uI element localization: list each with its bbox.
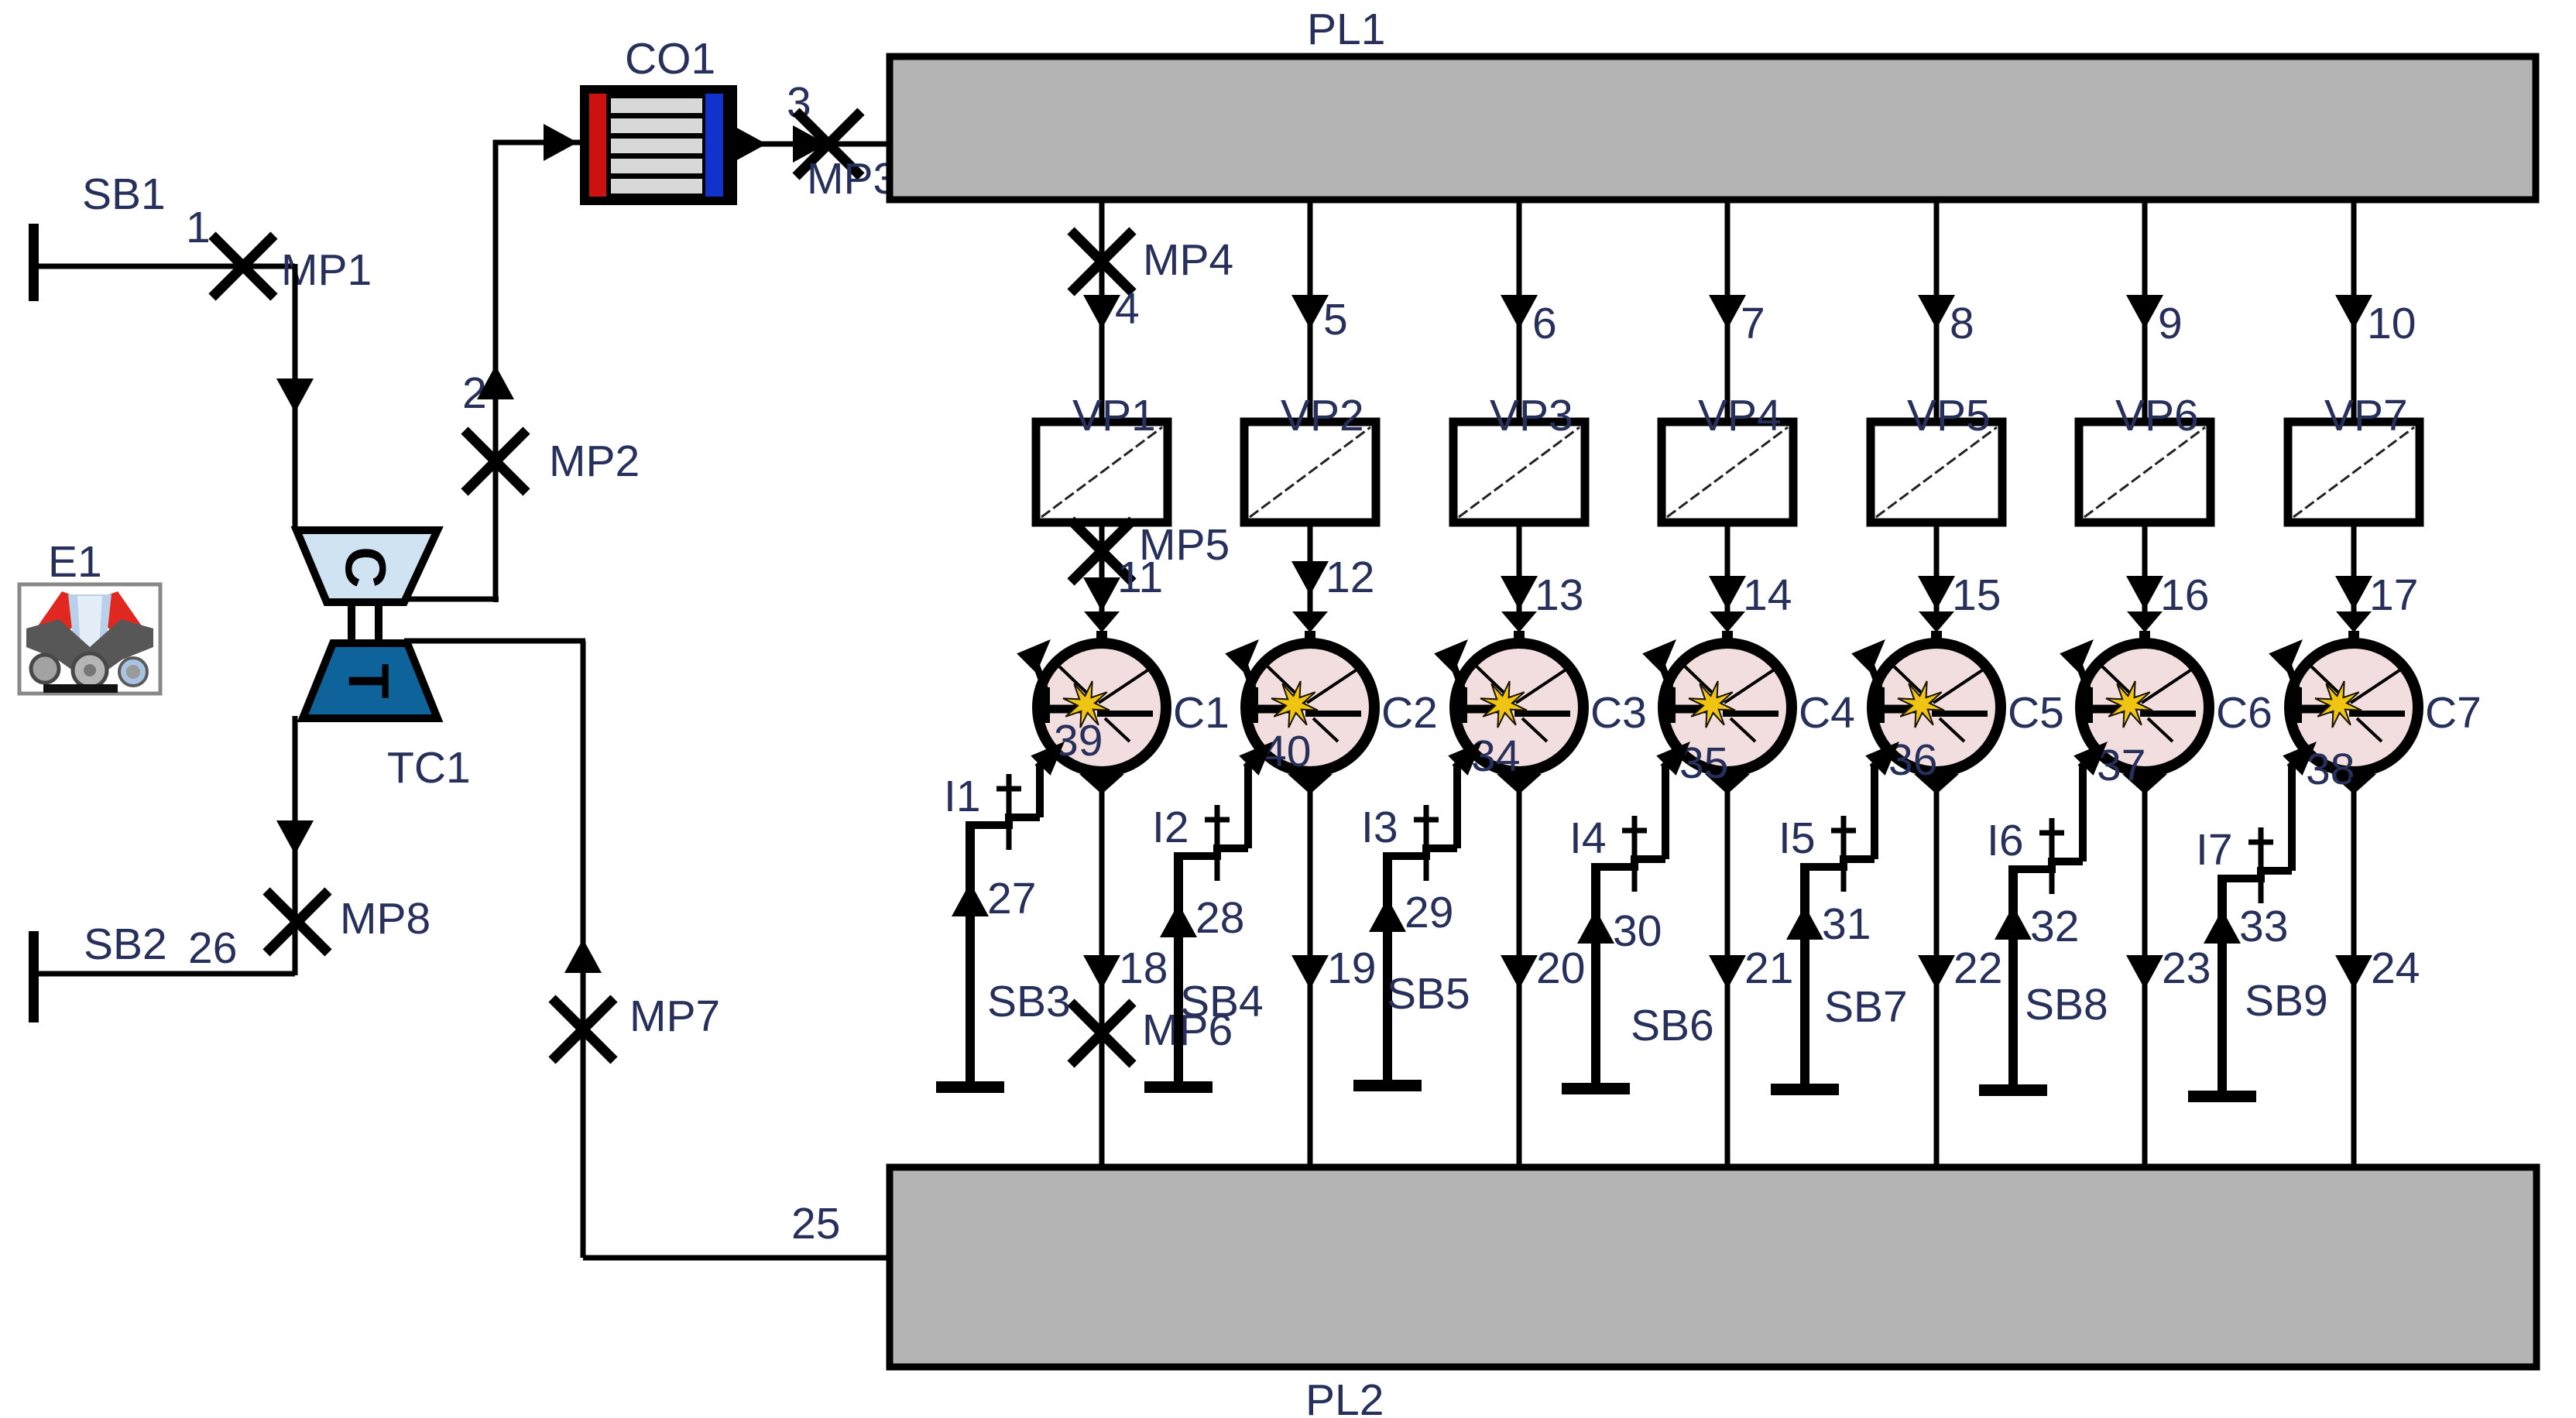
flow arrow up to turbine bbox=[564, 939, 602, 973]
svg-text:CO1: CO1 bbox=[625, 34, 715, 84]
flow arrow node 5 bbox=[1291, 295, 1348, 344]
flow arrow node 13 bbox=[1501, 570, 1583, 620]
label E1 bbox=[48, 537, 102, 587]
valve MP8 bbox=[266, 891, 430, 953]
wire VP5 to cylinder C5 bbox=[1934, 522, 1940, 613]
cylinder C3 bbox=[1434, 611, 1583, 794]
svg-text:SB8: SB8 bbox=[2025, 980, 2108, 1029]
svg-text:I4: I4 bbox=[1569, 813, 1607, 863]
boundary SB9 bbox=[2188, 1091, 2256, 1102]
valve VP2 bbox=[1244, 391, 1376, 522]
svg-text:27: 27 bbox=[987, 874, 1036, 923]
wire injector I1 to cylinder bbox=[1031, 742, 1065, 817]
label I2 bbox=[1152, 803, 1189, 852]
svg-text:C3: C3 bbox=[1590, 688, 1647, 738]
flow arrow node 15 bbox=[1918, 570, 2001, 620]
svg-text:MP3: MP3 bbox=[807, 154, 897, 204]
label I4 bbox=[1569, 813, 1607, 863]
cooler CO1 bbox=[580, 85, 737, 205]
wire PL1 riser pipe 7 bbox=[1725, 200, 1730, 424]
svg-text:VP6: VP6 bbox=[2115, 391, 2199, 440]
label SB7 bbox=[1824, 982, 1908, 1032]
svg-text:13: 13 bbox=[1535, 570, 1583, 620]
svg-text:32: 32 bbox=[2030, 902, 2079, 951]
flow arrow node 10 bbox=[2335, 295, 2416, 348]
label CO1 bbox=[625, 34, 715, 84]
boundary SB7 bbox=[1771, 1084, 1839, 1095]
svg-text:MP8: MP8 bbox=[340, 894, 430, 944]
svg-text:SB1: SB1 bbox=[82, 170, 166, 219]
svg-text:24: 24 bbox=[2371, 944, 2420, 993]
svg-text:29: 29 bbox=[1405, 888, 1453, 937]
svg-text:I3: I3 bbox=[1361, 803, 1398, 852]
wire VP2 to cylinder C2 bbox=[1308, 522, 1313, 613]
svg-text:23: 23 bbox=[2162, 944, 2211, 993]
injector I1 bbox=[970, 774, 1040, 850]
turbocharger compressor TC1-C bbox=[297, 530, 437, 602]
wire MP1 down to compressor bbox=[293, 264, 298, 530]
wire turbine outlet down bbox=[293, 716, 298, 975]
wire injector I3 supply bbox=[1383, 852, 1392, 1080]
cylinder C1 port number 39 bbox=[1054, 716, 1103, 766]
node 1 label bbox=[186, 203, 211, 252]
valve VP6 bbox=[2079, 391, 2211, 522]
wire injector I5 supply bbox=[1800, 863, 1809, 1084]
wire to CO1 inlet bbox=[493, 140, 580, 146]
wire VP7 to cylinder C7 bbox=[2351, 522, 2357, 613]
svg-text:I6: I6 bbox=[1987, 816, 2024, 865]
svg-text:18: 18 bbox=[1119, 944, 1168, 993]
injector I4 bbox=[1596, 816, 1665, 892]
wire compressor outlet to riser bbox=[404, 597, 499, 602]
engine E1 icon bbox=[19, 584, 160, 694]
svg-text:26: 26 bbox=[188, 923, 237, 973]
svg-text:36: 36 bbox=[1888, 735, 1937, 785]
svg-text:VP1: VP1 bbox=[1072, 391, 1156, 440]
svg-text:C1: C1 bbox=[1173, 688, 1230, 738]
valve VP4 bbox=[1662, 391, 1793, 522]
svg-text:E1: E1 bbox=[48, 537, 102, 587]
wire PL1 riser pipe 8 bbox=[1934, 200, 1940, 424]
wire CO1 to PL1 bbox=[737, 142, 892, 147]
svg-text:SB7: SB7 bbox=[1824, 982, 1908, 1032]
flow arrow node 20 bbox=[1501, 944, 1585, 993]
injector I5 bbox=[1805, 816, 1875, 892]
flow arrow node 6 bbox=[1501, 295, 1557, 348]
flow arrow up node 2 bbox=[477, 365, 514, 399]
flow arrow node 14 bbox=[1709, 570, 1792, 620]
svg-text:SB4: SB4 bbox=[1180, 977, 1264, 1026]
valve VP3 bbox=[1453, 391, 1585, 522]
injector I6 bbox=[2013, 818, 2083, 894]
svg-text:31: 31 bbox=[1822, 899, 1871, 949]
svg-text:4: 4 bbox=[1115, 284, 1140, 334]
label SB8 bbox=[2025, 980, 2108, 1029]
svg-text:SB2: SB2 bbox=[84, 920, 167, 969]
valve VP1 bbox=[1036, 391, 1168, 522]
boundary SB3 bbox=[936, 1081, 1004, 1093]
wire injector I5 to cylinder bbox=[1865, 742, 1899, 859]
wire PL1 riser pipe 9 bbox=[2142, 200, 2148, 424]
svg-text:28: 28 bbox=[1195, 893, 1244, 943]
flow arrow node 11 bbox=[1083, 553, 1163, 611]
label PL2 bbox=[1305, 1375, 1384, 1418]
flow arrow node 19 bbox=[1291, 944, 1376, 993]
svg-text:VP5: VP5 bbox=[1907, 391, 1991, 440]
label I7 bbox=[2196, 825, 2233, 875]
wire injector I7 supply bbox=[2218, 875, 2227, 1091]
svg-text:7: 7 bbox=[1741, 299, 1765, 348]
svg-text:8: 8 bbox=[1950, 299, 1974, 348]
valve VP7 bbox=[2288, 391, 2420, 522]
label I5 bbox=[1779, 813, 1816, 863]
svg-text:20: 20 bbox=[1536, 944, 1585, 993]
cylinder C5 port number 36 bbox=[1888, 735, 1937, 785]
svg-text:SB3: SB3 bbox=[987, 977, 1071, 1026]
wire injector I1 supply bbox=[966, 821, 975, 1081]
svg-text:C4: C4 bbox=[1799, 688, 1855, 738]
label SB3 bbox=[987, 977, 1071, 1026]
svg-text:11: 11 bbox=[1117, 553, 1163, 602]
cylinder C6 bbox=[2060, 611, 2209, 794]
wire VP1 to cylinder C1 bbox=[1099, 522, 1105, 613]
turbocharger turbine TC1-T bbox=[303, 643, 437, 718]
svg-text:I5: I5 bbox=[1779, 813, 1816, 863]
label SB2 bbox=[84, 920, 167, 969]
cylinder C1 bbox=[1017, 611, 1166, 794]
valve MP4 bbox=[1071, 231, 1233, 293]
svg-text:21: 21 bbox=[1744, 944, 1793, 993]
flow arrow node 16 bbox=[2126, 570, 2209, 620]
svg-text:PL2: PL2 bbox=[1305, 1375, 1384, 1418]
wire PL1 riser pipe 6 bbox=[1517, 200, 1522, 424]
svg-text:SB6: SB6 bbox=[1631, 1001, 1714, 1050]
valve MP6 bbox=[1071, 1002, 1233, 1064]
svg-text:T: T bbox=[337, 663, 401, 698]
flow arrow node 32 bbox=[1995, 902, 2079, 951]
wire cylinder C3 to PL2 bbox=[1517, 777, 1522, 1170]
svg-text:I2: I2 bbox=[1152, 803, 1189, 852]
node 2 label bbox=[462, 368, 487, 418]
label I1 bbox=[944, 772, 981, 821]
wire PL1 riser pipe 10 bbox=[2351, 200, 2357, 424]
wire turbine inlet from PL2 bbox=[404, 641, 892, 1258]
flow arrow into MP3 bbox=[793, 125, 827, 163]
wire cylinder C2 to PL2 bbox=[1308, 777, 1313, 1170]
injector I3 bbox=[1387, 805, 1457, 881]
svg-text:34: 34 bbox=[1471, 731, 1520, 781]
svg-text:C5: C5 bbox=[2008, 688, 2064, 738]
label SB9 bbox=[2245, 976, 2328, 1026]
svg-text:VP4: VP4 bbox=[1698, 391, 1782, 440]
wire SB1 to MP1 corner bbox=[245, 264, 295, 269]
svg-text:I1: I1 bbox=[944, 772, 981, 821]
plenum PL1 bbox=[890, 57, 2536, 200]
svg-text:SB9: SB9 bbox=[2245, 976, 2328, 1026]
label C4 bbox=[1799, 688, 1855, 738]
label C7 bbox=[2425, 688, 2482, 738]
svg-text:39: 39 bbox=[1054, 716, 1103, 766]
svg-text:16: 16 bbox=[2160, 570, 2209, 620]
flow arrow node 7 bbox=[1709, 295, 1765, 348]
svg-text:MP7: MP7 bbox=[629, 992, 720, 1041]
svg-text:30: 30 bbox=[1613, 906, 1662, 956]
label SB6 bbox=[1631, 1001, 1714, 1050]
label C5 bbox=[2008, 688, 2064, 738]
wire injector I2 to cylinder bbox=[1239, 742, 1273, 848]
svg-text:5: 5 bbox=[1323, 295, 1348, 344]
flow arrow node 18 bbox=[1083, 944, 1168, 993]
wire VP4 to cylinder C4 bbox=[1725, 522, 1730, 613]
svg-text:25: 25 bbox=[791, 1199, 840, 1248]
svg-text:MP2: MP2 bbox=[549, 437, 640, 486]
flow arrow down to MP8 bbox=[276, 820, 314, 855]
svg-text:C2: C2 bbox=[1381, 688, 1438, 738]
wire VP6 to cylinder C6 bbox=[2142, 522, 2148, 613]
label C6 bbox=[2216, 688, 2272, 738]
svg-text:15: 15 bbox=[1952, 570, 2001, 620]
svg-text:6: 6 bbox=[1532, 299, 1557, 348]
svg-text:17: 17 bbox=[2369, 570, 2418, 620]
svg-text:9: 9 bbox=[2158, 299, 2183, 348]
label SB4 bbox=[1180, 977, 1264, 1026]
wire PL1 riser pipe 5 bbox=[1308, 200, 1313, 424]
wire injector I4 supply bbox=[1591, 863, 1600, 1083]
wire cylinder C1 to PL2 bbox=[1099, 777, 1105, 1170]
flow arrow node 23 bbox=[2126, 944, 2211, 993]
boundary SB5 bbox=[1353, 1080, 1422, 1091]
wire cylinder C6 to PL2 bbox=[2142, 777, 2148, 1170]
flow arrow node 8 bbox=[1918, 295, 1974, 348]
wire PL1 riser pipe 4 bbox=[1099, 200, 1105, 424]
flow arrow node 4 bbox=[1083, 284, 1140, 334]
wire riser 2 up to CO1 level bbox=[493, 140, 499, 602]
injector I7 bbox=[2222, 827, 2292, 903]
label I6 bbox=[1987, 816, 2024, 865]
cylinder C4 bbox=[1642, 611, 1792, 794]
label C1 bbox=[1173, 688, 1230, 738]
turbocharger shaft bbox=[352, 602, 379, 643]
svg-text:14: 14 bbox=[1743, 570, 1792, 620]
wire cylinder C7 to PL2 bbox=[2351, 777, 2357, 1170]
flow arrow node 30 bbox=[1577, 906, 1662, 956]
wire injector I6 to cylinder bbox=[2073, 742, 2108, 861]
boundary SB1 bbox=[29, 224, 245, 301]
injector I2 bbox=[1178, 805, 1248, 881]
svg-text:VP2: VP2 bbox=[1281, 391, 1364, 440]
valve VP5 bbox=[1871, 391, 2002, 522]
wire injector I3 to cylinder bbox=[1448, 742, 1482, 848]
svg-text:SB5: SB5 bbox=[1387, 969, 1470, 1019]
cylinder C5 bbox=[1851, 611, 2001, 794]
cylinder C2 port number 40 bbox=[1262, 727, 1311, 776]
boundary SB6 bbox=[1562, 1083, 1630, 1094]
label C2 bbox=[1381, 688, 1438, 738]
label C3 bbox=[1590, 688, 1647, 738]
label I3 bbox=[1361, 803, 1398, 852]
cylinder C6 port number 37 bbox=[2097, 741, 2146, 790]
cylinder C3 port number 34 bbox=[1471, 731, 1520, 781]
cylinder C2 bbox=[1225, 611, 1374, 794]
svg-text:33: 33 bbox=[2239, 902, 2288, 951]
svg-text:PL1: PL1 bbox=[1307, 5, 1385, 54]
flow arrow node 12 bbox=[1291, 553, 1374, 602]
node 25 label bbox=[791, 1199, 840, 1248]
svg-text:TC1: TC1 bbox=[387, 743, 471, 793]
valve MP1 bbox=[212, 235, 372, 297]
svg-text:1: 1 bbox=[186, 203, 211, 252]
svg-text:VP7: VP7 bbox=[2324, 391, 2408, 440]
node 3 label bbox=[787, 78, 811, 128]
wire injector I7 to cylinder bbox=[2283, 742, 2317, 871]
flow arrow after CO1 bbox=[732, 125, 767, 163]
cylinder C4 port number 35 bbox=[1679, 738, 1728, 788]
flow arrow into compressor bbox=[276, 378, 314, 413]
valve MP7 bbox=[552, 992, 720, 1060]
svg-text:22: 22 bbox=[1953, 944, 2002, 993]
flow arrow node 28 bbox=[1160, 893, 1244, 943]
svg-text:38: 38 bbox=[2306, 745, 2355, 794]
valve MP2 bbox=[465, 430, 640, 492]
wire cylinder C5 to PL2 bbox=[1934, 777, 1940, 1170]
wire injector I2 supply bbox=[1174, 852, 1183, 1081]
flow arrow node 21 bbox=[1709, 944, 1793, 993]
boundary SB2 bbox=[29, 931, 295, 1022]
svg-text:40: 40 bbox=[1262, 727, 1311, 776]
svg-text:C6: C6 bbox=[2216, 688, 2272, 738]
label PL1 bbox=[1307, 5, 1385, 54]
svg-text:12: 12 bbox=[1326, 553, 1374, 602]
valve MP3 bbox=[796, 111, 897, 204]
boundary SB8 bbox=[1979, 1084, 2047, 1096]
plenum PL2 bbox=[890, 1167, 2537, 1367]
svg-text:C7: C7 bbox=[2425, 688, 2482, 738]
flow arrow node 22 bbox=[1918, 944, 2002, 993]
wire injector I6 supply bbox=[2008, 865, 2018, 1084]
svg-text:19: 19 bbox=[1327, 944, 1376, 993]
flow arrow node 24 bbox=[2335, 944, 2420, 993]
svg-text:10: 10 bbox=[2367, 299, 2416, 348]
flow arrow into CO1 bbox=[544, 124, 578, 161]
label TC1 bbox=[387, 743, 471, 793]
svg-text:C: C bbox=[334, 546, 398, 587]
svg-text:I7: I7 bbox=[2196, 825, 2233, 875]
wire injector I4 to cylinder bbox=[1656, 742, 1690, 859]
flow arrow node 31 bbox=[1786, 899, 1871, 949]
label SB1 bbox=[82, 170, 166, 219]
svg-text:VP3: VP3 bbox=[1490, 391, 1573, 440]
label SB5 bbox=[1387, 969, 1470, 1019]
valve MP5 bbox=[1071, 520, 1230, 582]
flow arrow node 17 bbox=[2335, 570, 2418, 620]
wire cylinder C4 to PL2 bbox=[1725, 777, 1730, 1170]
flow arrow node 29 bbox=[1369, 888, 1453, 937]
node 26 label bbox=[188, 923, 237, 973]
flow arrow node 9 bbox=[2126, 295, 2183, 348]
cylinder C7 bbox=[2269, 611, 2418, 794]
wire VP3 to cylinder C3 bbox=[1517, 522, 1522, 613]
cylinder C7 port number 38 bbox=[2306, 745, 2355, 794]
boundary SB4 bbox=[1144, 1081, 1213, 1093]
svg-text:MP4: MP4 bbox=[1143, 235, 1233, 285]
flow arrow node 27 bbox=[952, 874, 1036, 923]
flow arrow node 33 bbox=[2204, 902, 2288, 951]
